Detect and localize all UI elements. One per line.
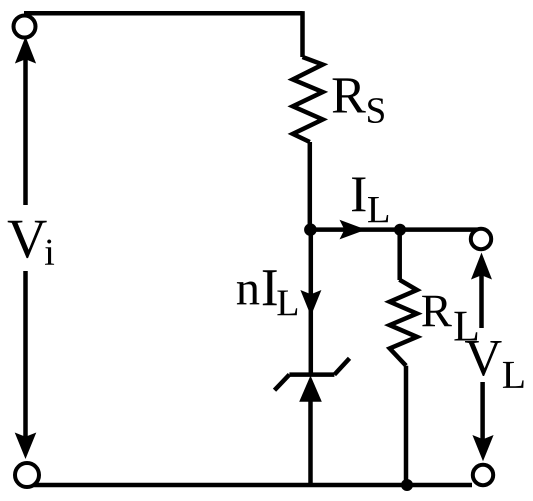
terminal bottom-right — [473, 465, 493, 485]
arrowhead Vi down — [15, 433, 37, 460]
label glyph nIL_I — [263, 270, 277, 305]
arrowhead IL right — [340, 220, 367, 240]
wire Vi arrow shaft upper — [23, 52, 28, 205]
resistor RS — [293, 57, 323, 142]
label glyph RS_R — [333, 78, 366, 112]
wire RS top vertical — [300, 11, 305, 57]
arrowhead VL up — [471, 253, 492, 280]
label glyph IL_L — [368, 197, 388, 222]
zener diode D1 triangle — [299, 376, 322, 402]
wire Vi arrow shaft lower — [23, 271, 28, 448]
wire bottom horizontal — [27, 483, 472, 488]
node A junction dot — [304, 223, 317, 236]
wire VL arrow shaft lower — [480, 382, 485, 448]
terminal bottom-left — [15, 463, 39, 487]
terminal top-right — [471, 229, 491, 249]
label glyph VL_V — [465, 341, 502, 376]
wire top horizontal — [24, 11, 303, 16]
node C junction dot — [401, 479, 413, 491]
label glyph Vi_i — [45, 240, 54, 265]
label glyph RS_S — [368, 98, 384, 123]
label glyph Vi_V — [8, 221, 47, 258]
wire RS bottom to node A — [308, 142, 313, 230]
wire VL arrow shaft upper — [479, 264, 484, 328]
arrowhead nIL down — [300, 290, 321, 316]
label glyph VL_L — [503, 362, 524, 388]
label glyph nIL_L — [277, 291, 297, 316]
wire zener anode to bottom — [308, 399, 313, 486]
wire RL branch top — [397, 230, 402, 280]
label glyph nIL_n — [237, 282, 259, 305]
label glyph IL_I — [352, 178, 366, 212]
arrowhead Vi up — [15, 37, 36, 64]
wire RL bottom — [404, 366, 409, 485]
zener diode D1 bar — [289, 372, 334, 377]
resistor RL — [390, 280, 417, 366]
wire node A to right terminal — [310, 227, 477, 232]
label glyph RL_L — [454, 312, 477, 341]
terminal top-left — [14, 16, 36, 38]
zener diode D1 left tail — [275, 375, 290, 391]
label glyph RL_R — [422, 296, 452, 327]
wire zener branch upper — [309, 230, 314, 375]
zener diode D1 right tail — [334, 358, 349, 374]
node B junction dot — [394, 224, 406, 236]
arrowhead VL down — [472, 435, 493, 461]
